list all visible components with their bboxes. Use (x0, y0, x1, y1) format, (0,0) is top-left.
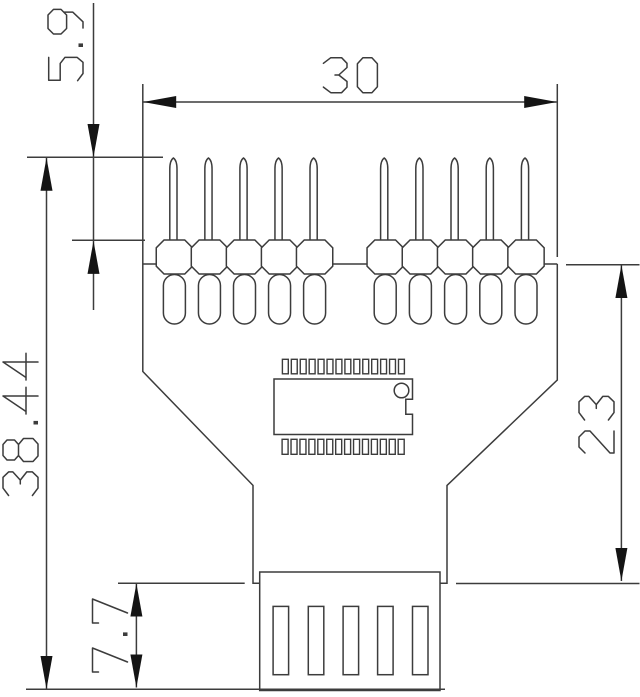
pin lower contact at x=490.8 (480, 275, 502, 325)
dimension text 38.44 (3, 353, 38, 495)
IC bottom pad 10 (362, 439, 368, 454)
pin needle at x=209.4 (205, 158, 212, 246)
pin lower contact at x=279.6 (269, 275, 291, 325)
pin lower contact at x=209.4 (198, 275, 220, 325)
pin needle at x=314.6 (310, 158, 317, 246)
IC bottom pad 9 (354, 439, 360, 454)
extension line hex-top level (72, 239, 145, 241)
pin hex body at x=420.4 (402, 240, 438, 274)
pin needle at x=490.8 (486, 158, 493, 246)
IC top pad 8 (345, 359, 351, 374)
IC bottom pad 1 (282, 439, 288, 454)
dimension line 23 (620, 265, 622, 581)
IC bottom pad 14 (398, 439, 404, 454)
extension line collar level left (118, 582, 245, 584)
pin hex body at x=279.6 (261, 240, 297, 274)
pin needle at x=385.2 (381, 158, 388, 246)
pin needle at x=244.5 (240, 158, 247, 246)
IC bottom pad 2 (291, 439, 297, 454)
IC top pad 9 (354, 359, 360, 374)
pin hex body at x=455.6 (437, 240, 473, 274)
extension line pin-top level (27, 156, 163, 158)
USB connector slot 1 (273, 606, 289, 674)
IC bottom pad 5 (318, 439, 324, 454)
pin lower contact at x=314.6 (304, 275, 326, 325)
IC top pad 10 (363, 359, 369, 374)
IC bottom pad 7 (336, 439, 342, 454)
pin hex body at x=174.4 (156, 240, 192, 274)
USB connector slot 2 (308, 606, 324, 674)
USB connector slot 4 (378, 606, 394, 674)
IC top pad 5 (318, 359, 324, 374)
dimension line 7.7 (135, 584, 137, 688)
IC bottom pad 4 (309, 439, 315, 454)
USB connector slot 3 (343, 606, 359, 674)
IC pin-1 marker circle (394, 383, 409, 398)
dimension text 23 (579, 396, 614, 453)
IC top pad 1 (282, 359, 288, 374)
IC top pad 2 (291, 359, 297, 374)
IC top pad 14 (398, 359, 404, 374)
adapter body top edge (143, 263, 558, 265)
pin hex body at x=244.5 (226, 240, 262, 274)
pin lower contact at x=455.6 (445, 275, 467, 325)
IC bottom pad 13 (389, 439, 395, 454)
IC bottom pad 3 (300, 439, 306, 454)
IC bottom pad 8 (345, 439, 351, 454)
IC bottom pad 12 (380, 439, 386, 454)
pin lower contact at x=174.4 (163, 275, 185, 325)
pin hex body at x=490.8 (473, 240, 509, 274)
pin hex body at x=385.2 (367, 240, 403, 274)
USB connector shell (260, 572, 440, 691)
IC top pad 4 (309, 359, 315, 374)
pin needle at x=526.0 (521, 158, 528, 246)
pin lower contact at x=244.5 (234, 275, 256, 325)
adapter body left edge and extension line (143, 84, 260, 583)
dimension line 38.44 (46, 158, 48, 689)
adapter body right edge (440, 264, 557, 583)
dimension 5.9 lower arrow (88, 241, 100, 274)
dimension line 30 (143, 101, 556, 103)
dimension line 5.9 upper segment (93, 3, 95, 310)
pin needle at x=279.6 (275, 158, 282, 246)
USB connector slot 5 (413, 606, 429, 674)
dimension text 7.7 (93, 599, 128, 672)
IC U1 body with pin-1 notch (274, 379, 413, 435)
IC top pad 3 (300, 359, 306, 374)
pin lower contact at x=385.2 (374, 275, 396, 325)
pin needle at x=420.4 (416, 158, 423, 246)
extension line right of 30 (556, 84, 558, 257)
dimension text 5.9 (48, 9, 83, 80)
IC bottom pad 6 (327, 439, 333, 454)
IC top pad 7 (336, 359, 342, 374)
dimension text 30 (323, 58, 377, 93)
pin lower contact at x=526.0 (515, 275, 537, 325)
pin needle at x=455.6 (451, 158, 458, 246)
extension line top-right for 23 (566, 264, 640, 266)
IC top pad 13 (390, 359, 396, 374)
pin hex body at x=209.4 (191, 240, 227, 274)
IC top pad 6 (327, 359, 333, 374)
IC top pad 12 (381, 359, 387, 374)
bottom extension line (26, 688, 445, 690)
pin lower contact at x=420.4 (409, 275, 431, 325)
pin hex body at x=526.0 (508, 240, 544, 274)
IC bottom pad 11 (371, 439, 377, 454)
pin hex body at x=314.6 (296, 240, 332, 274)
IC top pad 11 (372, 359, 378, 374)
extension line collar level right (456, 583, 640, 585)
pin needle at x=174.4 (170, 158, 177, 246)
